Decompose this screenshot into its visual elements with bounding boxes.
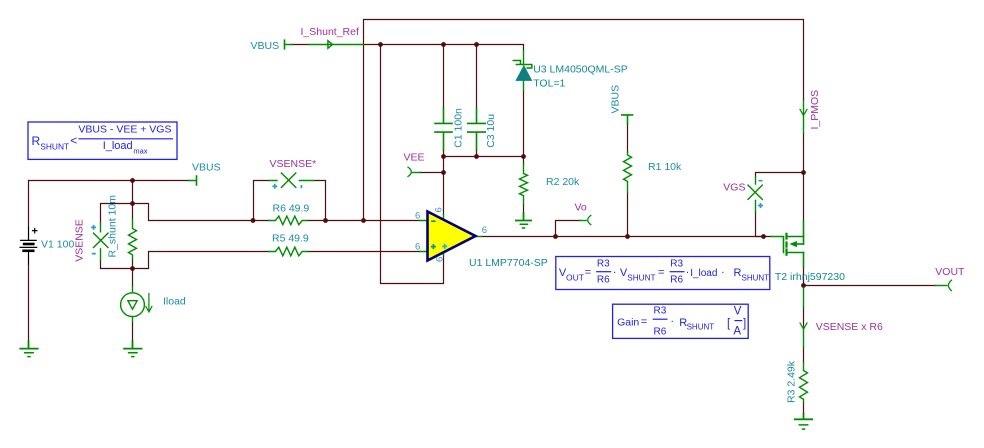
svg-text:SHUNT: SHUNT [40, 142, 69, 152]
op-amp plus symbols [431, 244, 436, 249]
svg-text:R3: R3 [597, 258, 610, 269]
wire VOUT [804, 285, 936, 287]
terminal VBUS top green wire [285, 40, 293, 49]
node VGS gate [761, 234, 766, 239]
svg-text:·: · [686, 267, 690, 279]
svg-text:R3: R3 [670, 258, 683, 269]
svg-text:V1 100: V1 100 [41, 238, 74, 250]
wire Iload to ground [132, 322, 134, 341]
formula box 3 Gain equation [613, 304, 749, 338]
svg-text:SHUNT: SHUNT [627, 273, 655, 282]
svg-text:SHUNT: SHUNT [687, 323, 715, 332]
node R6 right [323, 218, 328, 223]
resistor R1 zigzag [624, 152, 632, 193]
terminal VEE arc [408, 167, 411, 176]
node C3 bottom [474, 154, 479, 159]
ground R2 [516, 213, 531, 221]
svg-text:R1 10k: R1 10k [648, 161, 682, 173]
node Rshunt top [130, 201, 135, 206]
wire vertical B VBUS to op-amp V+ pin [381, 45, 444, 284]
ground R3 [795, 414, 812, 420]
transistor T2 drain stub [788, 252, 804, 254]
probe VSENSE plus minus [91, 225, 96, 254]
op-amp power pin stubs [443, 215, 445, 256]
wire U3 lower lead to VEE rail [523, 90, 525, 156]
wire VSENSE loop left [101, 204, 133, 269]
svg-text:6: 6 [415, 210, 420, 221]
svg-text:T2 irhnj597230: T2 irhnj597230 [775, 271, 845, 283]
svg-text:<: < [70, 134, 77, 148]
transistor T2 gate lead and gate bar [771, 237, 783, 253]
svg-text:·: · [613, 267, 617, 279]
svg-text:VBUS: VBUS [251, 40, 280, 52]
transistor T2 channel bars [785, 234, 787, 255]
wire R_shunt lower lead [132, 259, 134, 286]
current probe I_PMOS green segment [803, 100, 805, 133]
diode U3 leads [523, 50, 525, 90]
transistor T2 source stub [788, 236, 804, 238]
wire left battery loop top [29, 180, 189, 182]
node battery/Rshunt top [130, 178, 135, 183]
svg-text:OUT: OUT [566, 272, 584, 282]
svg-text:6: 6 [415, 242, 420, 253]
svg-text:C1 100n: C1 100n [453, 108, 465, 148]
svg-text:SHUNT: SHUNT [742, 273, 770, 282]
node R1 bottom [625, 234, 630, 239]
svg-text:R2 20k: R2 20k [546, 176, 580, 188]
wire C3 top lead [476, 45, 478, 109]
svg-text:VBUS - VEE + VGS: VBUS - VEE + VGS [78, 124, 171, 136]
wire PMOS source upper [803, 173, 805, 222]
wire VEE terminal to junction [420, 172, 444, 174]
node Vo [553, 234, 558, 239]
resistor R_shunt 10m zigzag [129, 219, 137, 259]
probe VGS plus minus [758, 181, 763, 208]
svg-text:C3 10u: C3 10u [485, 114, 497, 148]
source Iload arrow [146, 294, 152, 312]
svg-text:=: = [658, 267, 664, 279]
terminal VBUS left green wire [189, 176, 197, 185]
wire R6 right to op-amp inverting input [308, 220, 420, 222]
svg-text:VSENSE*: VSENSE* [270, 158, 317, 170]
wire top sense line from node A down left side to inverting node [364, 20, 804, 221]
wire VBUS terminal to probe maroon segment [292, 44, 308, 46]
svg-text:VSENSE: VSENSE [74, 219, 86, 262]
node VOUT [801, 283, 806, 288]
diode U3 zener cathode bar with end hooks [513, 61, 532, 69]
svg-text:VBUS: VBUS [192, 162, 221, 174]
wire VBUS top rail to C1 C3 and U3 [364, 45, 524, 51]
wire R1 lower lead [627, 124, 629, 237]
svg-text:R3: R3 [654, 305, 667, 316]
svg-text:VEE: VEE [404, 151, 425, 163]
probe VSENSE leads [100, 223, 102, 260]
svg-text:·: · [670, 316, 674, 328]
svg-text:6: 6 [435, 257, 446, 262]
terminal Vo green wire [580, 220, 586, 222]
svg-text:V: V [734, 306, 742, 318]
transistor T2 body arrow head [791, 242, 797, 247]
svg-text:6: 6 [434, 207, 445, 212]
probe VSENSE* plus minus [272, 184, 301, 189]
svg-text:I_Shunt_Ref: I_Shunt_Ref [301, 26, 359, 38]
svg-text:·: · [721, 267, 725, 279]
svg-text:A: A [733, 326, 741, 338]
node R6 left [251, 218, 256, 223]
svg-text:U3 LM4050QML-SP: U3 LM4050QML-SP [533, 64, 628, 76]
op-amp U1 triangle [428, 212, 476, 261]
node VEE rail right [521, 154, 526, 159]
node inverting input [361, 218, 366, 223]
source Iload inner triangle [128, 301, 137, 310]
resistor R2 zigzag [520, 164, 528, 205]
wire VGS branch upper [756, 173, 804, 178]
svg-text:R3 2.49k: R3 2.49k [786, 360, 798, 403]
wire PMOS drain to VOUT node [803, 267, 805, 286]
battery V1 [20, 227, 38, 265]
svg-text:VBUS: VBUS [610, 85, 622, 114]
probe VSENSE X [94, 233, 109, 247]
svg-text:I_PMOS: I_PMOS [809, 90, 821, 130]
node C3 top [474, 42, 479, 47]
svg-text:VOUT: VOUT [935, 266, 965, 278]
svg-text:Iload: Iload [163, 296, 186, 308]
ground Iload [124, 341, 141, 348]
node VBUS vertical B [378, 42, 383, 47]
node VEE terminal junction [441, 170, 446, 175]
wire R_shunt upper branch [132, 181, 134, 220]
terminal VBUS above R1 [622, 115, 633, 124]
terminal VOUT green wire and arc [936, 285, 947, 287]
transistor T2 body stub with arrow [796, 243, 804, 245]
source Iload circle [121, 293, 145, 317]
terminal VEE green wire [412, 172, 420, 174]
wire VSENSE* loop [254, 181, 326, 221]
op-amp input stubs [420, 221, 427, 252]
probe VGS leads [755, 177, 757, 212]
resistor R6 zigzag [269, 216, 308, 225]
transistor T2 source/drain verticals [803, 221, 805, 267]
wire op-amp output to PMOS gate [482, 236, 772, 238]
probe VGS X [748, 185, 762, 199]
op-amp minus symbol [431, 220, 435, 222]
svg-text:U1 LMP7704-SP: U1 LMP7704-SP [469, 257, 548, 269]
svg-text:I_load: I_load [690, 268, 717, 279]
ground battery [20, 341, 37, 348]
wire battery vertical [28, 181, 30, 342]
svg-text:TOL=1: TOL=1 [533, 78, 565, 90]
svg-text:]: ] [743, 318, 746, 330]
svg-text:VGS: VGS [723, 181, 745, 193]
svg-text:R6: R6 [654, 327, 667, 338]
diode U3 triangle [516, 66, 531, 80]
formula box 1 R_SHUNT limit [28, 122, 177, 159]
svg-text:R: R [734, 267, 742, 279]
svg-text:VSENSE x R6: VSENSE x R6 [816, 321, 883, 333]
node Rshunt bottom [130, 266, 135, 271]
resistor R5 zigzag [269, 247, 308, 256]
wire Vo branch [556, 221, 581, 237]
wire VGS branch lower [756, 212, 764, 237]
svg-text:R_shunt 10m: R_shunt 10m [107, 195, 119, 258]
wire C3 bottom stub [476, 150, 478, 157]
wire R3 column maroon segments [803, 286, 805, 414]
node VGS top [801, 170, 806, 175]
svg-text:Vo: Vo [575, 202, 587, 214]
capacitor C3 [468, 108, 485, 150]
svg-text:Gain: Gain [617, 317, 639, 329]
wire R3 green segments [803, 288, 805, 371]
current probe I_Shunt_Ref arrow [328, 41, 333, 49]
wire R2 bottom lead middle segment [523, 205, 525, 214]
svg-text:6: 6 [482, 225, 487, 236]
wire R_shunt bottom node to R5 [133, 252, 269, 269]
svg-text:R5 49.9: R5 49.9 [272, 233, 309, 245]
wire VEE rail y=156.5 [444, 156, 524, 158]
svg-text:=: = [585, 267, 591, 279]
capacitor C1 [435, 108, 452, 150]
node C1 top [441, 42, 446, 47]
terminal Vo arc [588, 215, 591, 224]
formula box 2 VOUT equation [556, 257, 770, 290]
svg-text:R6: R6 [670, 275, 683, 286]
op-amp output stub [476, 236, 482, 238]
svg-text:R6: R6 [597, 275, 610, 286]
svg-text:I_load: I_load [103, 140, 133, 152]
wire R2 top stub [523, 157, 525, 165]
source Iload leads [132, 286, 134, 322]
wire C1 top lead [443, 45, 445, 109]
node C1 bottom [441, 154, 446, 159]
svg-text:=: = [641, 316, 647, 328]
wire R5 right to op-amp non-inverting input [308, 251, 420, 253]
probe VSENSE* leads [269, 180, 314, 182]
pointer VSENSE x R6 arrow [800, 323, 807, 329]
svg-text:R: R [32, 134, 41, 148]
wire R_shunt top node to R6 [133, 204, 269, 221]
svg-text:R6 49.9: R6 49.9 [273, 202, 310, 214]
wire I_PMOS lower segment to VGS junction [803, 133, 805, 173]
wire C1 bottom stub [443, 150, 445, 157]
probe VSENSE* X [281, 173, 295, 187]
svg-text:+: + [32, 226, 38, 238]
svg-text:max: max [133, 147, 147, 156]
wire C1 bottom to VEE junction and op-amp V- pin [443, 157, 445, 215]
resistor R3 zigzag [800, 371, 808, 403]
current probe I_Shunt_Ref green wire [308, 44, 363, 46]
